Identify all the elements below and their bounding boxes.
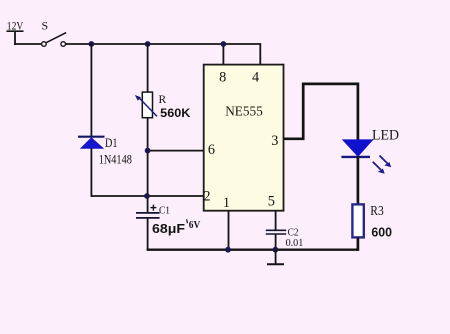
wire pin 6 horizontal bbox=[148, 150, 204, 152]
wire C2 to ground rail bbox=[275, 234, 277, 251]
node A bbox=[89, 41, 95, 47]
wire resistor down through nodes to C1 bbox=[147, 118, 149, 213]
svg-text:LED: LED bbox=[372, 128, 399, 144]
svg-text:NE555: NE555 bbox=[225, 105, 263, 120]
svg-text:6: 6 bbox=[208, 142, 215, 158]
switch S bbox=[42, 19, 67, 47]
wire node B down to resistor R bbox=[147, 44, 149, 93]
node pin6 junction bbox=[145, 148, 151, 154]
wire LED to R3 bbox=[357, 156, 360, 205]
wire top rail to switch bbox=[14, 43, 41, 45]
svg-text:12V: 12V bbox=[7, 19, 24, 33]
timer IC U1 NE555 bbox=[204, 65, 284, 211]
wire node A to node B bbox=[91, 43, 148, 45]
diode D1 bbox=[78, 137, 105, 149]
svg-text:2: 2 bbox=[203, 189, 210, 205]
value 68uF 6V bbox=[152, 219, 201, 236]
wire node B to node C bbox=[147, 43, 224, 45]
node C bbox=[221, 41, 227, 47]
resistor R3 bbox=[352, 204, 363, 237]
LED bbox=[341, 139, 391, 173]
wire 12V lead bbox=[14, 31, 16, 45]
wire diode to pin 2 rail bbox=[90, 148, 92, 197]
wire pin 8 lead bbox=[222, 44, 224, 65]
svg-text:4: 4 bbox=[252, 70, 259, 86]
svg-text:R3: R3 bbox=[370, 204, 384, 219]
svg-text:5: 5 bbox=[268, 194, 275, 210]
capacitor C1 bbox=[136, 205, 160, 218]
svg-text:560K: 560K bbox=[160, 106, 191, 120]
wire pin 1 lead bbox=[228, 211, 230, 251]
svg-text:S: S bbox=[42, 19, 49, 33]
capacitor C2 bbox=[266, 230, 286, 234]
wire pin 5 lead bbox=[275, 211, 277, 231]
wire ground rail bbox=[147, 248, 358, 250]
svg-text:D1: D1 bbox=[105, 136, 118, 150]
wire node C to pin 4 lead bbox=[223, 44, 260, 65]
svg-text:600: 600 bbox=[371, 225, 392, 240]
ground bbox=[267, 250, 284, 265]
wire node A down to diode bbox=[90, 44, 92, 136]
svg-text:C1: C1 bbox=[159, 206, 170, 217]
svg-text:0.01: 0.01 bbox=[286, 238, 304, 249]
wire pin 2 horizontal bbox=[91, 195, 203, 197]
svg-text:1: 1 bbox=[223, 195, 230, 211]
wire C1 to ground rail bbox=[147, 218, 149, 251]
12V supply label bbox=[7, 19, 24, 33]
svg-text:68μF: 68μF bbox=[152, 221, 185, 236]
svg-text:1N4148: 1N4148 bbox=[99, 153, 132, 167]
svg-text:C2: C2 bbox=[288, 227, 299, 238]
wire R3 to ground rail bbox=[357, 237, 360, 251]
node B bbox=[145, 41, 151, 47]
svg-text:8: 8 bbox=[219, 70, 226, 86]
svg-text:6V: 6V bbox=[189, 220, 201, 231]
svg-text:R: R bbox=[159, 94, 167, 106]
resistor R (variable) bbox=[135, 92, 157, 118]
svg-text:3: 3 bbox=[271, 133, 278, 149]
wire switch to node A bbox=[66, 43, 92, 45]
wire pin 3 to LED top bbox=[284, 84, 358, 140]
node pin1 ground junction bbox=[225, 247, 231, 253]
node pin5 ground junction bbox=[273, 247, 279, 253]
node pin2 junction bbox=[144, 193, 150, 199]
